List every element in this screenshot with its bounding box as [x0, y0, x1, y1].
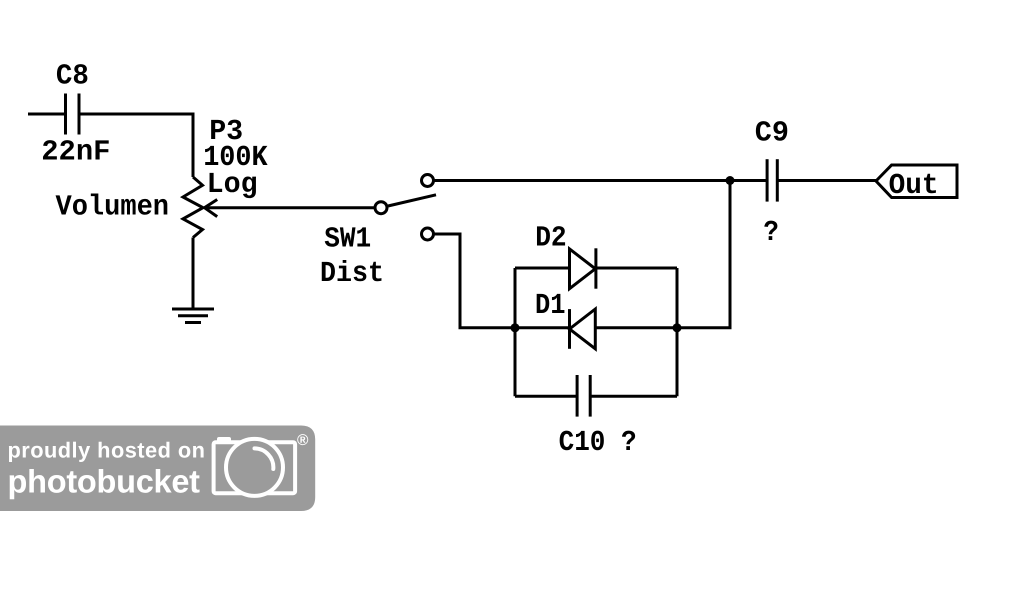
svg-text:®: ® [297, 432, 309, 449]
svg-text:proudly hosted on: proudly hosted on [8, 438, 206, 463]
camera icon viewfinder bump [217, 437, 231, 444]
wire C9 to Out flag [777, 179, 876, 182]
wire C10 left lead [515, 395, 577, 398]
ground [172, 309, 214, 323]
svg-text:C9: C9 [755, 116, 789, 149]
camera icon lens glare arc [255, 448, 274, 469]
wire C10 right lead [590, 395, 677, 398]
svg-text:SW1: SW1 [324, 223, 371, 256]
diode D1 [570, 309, 596, 349]
wire left rail of diode block [514, 268, 517, 396]
switch SW1 lower throw contact [422, 228, 434, 240]
wire D2 cathode lead [596, 267, 677, 270]
capacitor C8 [66, 94, 80, 135]
potentiometer P3 body [183, 177, 203, 238]
svg-text:D1: D1 [535, 289, 566, 322]
wire node A to C9 [730, 179, 767, 182]
photobucket watermark background [0, 426, 315, 512]
svg-text:C10 ?: C10 ? [559, 426, 637, 459]
wire input lead to C8 [28, 113, 64, 116]
wire D1 cathode lead [515, 326, 570, 329]
node B junction dot [511, 323, 520, 332]
node C junction dot [673, 323, 682, 332]
svg-text:photobucket: photobucket [8, 464, 201, 500]
svg-text:Out: Out [889, 169, 939, 202]
wire right rail of diode block [676, 268, 679, 396]
switch SW1 blade [388, 195, 436, 206]
camera icon body [214, 442, 296, 493]
wire pot bottom to ground [192, 238, 195, 310]
wire upper throw to node A [434, 179, 731, 182]
camera icon lens [226, 439, 283, 496]
wire C8 to pot top [81, 114, 194, 177]
svg-text:?: ? [763, 216, 779, 249]
node A junction dot [726, 176, 735, 185]
diode D2 [570, 248, 596, 288]
capacitor C9 [767, 159, 777, 201]
wire node C to node A riser [677, 181, 730, 328]
svg-text:D2: D2 [535, 222, 567, 255]
wire lower throw to diode block [434, 234, 516, 328]
svg-text:Dist: Dist [320, 257, 384, 290]
wire D1 anode lead [595, 326, 677, 329]
wire D2 anode lead [515, 267, 570, 270]
capacitor C10 [577, 375, 590, 417]
switch SW1 upper throw contact [422, 175, 434, 187]
svg-text:Log: Log [207, 168, 258, 201]
potentiometer P3 wiper arrow [205, 200, 376, 217]
svg-text:C8: C8 [56, 60, 89, 93]
Out flag outline [876, 165, 957, 198]
switch SW1 pole contact [375, 202, 387, 214]
svg-text:Volumen: Volumen [56, 191, 170, 224]
svg-text:22nF: 22nF [41, 135, 110, 168]
